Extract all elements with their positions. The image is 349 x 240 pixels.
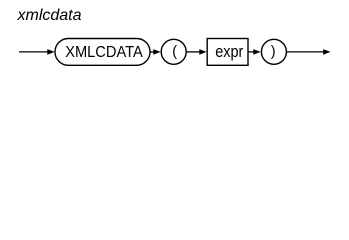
arrowhead into XMLCDATA (47, 49, 54, 55)
wire oval to lparen (150, 51, 155, 53)
title xmlcdata (17, 7, 82, 24)
svg-text:): ) (271, 44, 276, 60)
svg-text:(: ( (172, 44, 177, 60)
terminal circle lparen (161, 39, 186, 64)
terminal oval XMLCDATA (55, 39, 150, 66)
svg-text:XMLCDATA: XMLCDATA (65, 44, 143, 61)
wire end segment (286, 51, 324, 53)
svg-text:xmlcdata: xmlcdata (17, 7, 82, 24)
arrowhead end (323, 49, 330, 55)
terminal circle rparen (261, 39, 286, 64)
arrowhead into expr (199, 49, 206, 55)
wire lparen to expr (186, 51, 200, 53)
wire expr to rparen (248, 51, 255, 53)
arrowhead into rparen (253, 49, 260, 55)
nonterminal rect expr (207, 39, 248, 66)
svg-text:expr: expr (215, 43, 244, 61)
wire start segment (19, 51, 49, 53)
arrowhead into lparen (153, 49, 160, 55)
